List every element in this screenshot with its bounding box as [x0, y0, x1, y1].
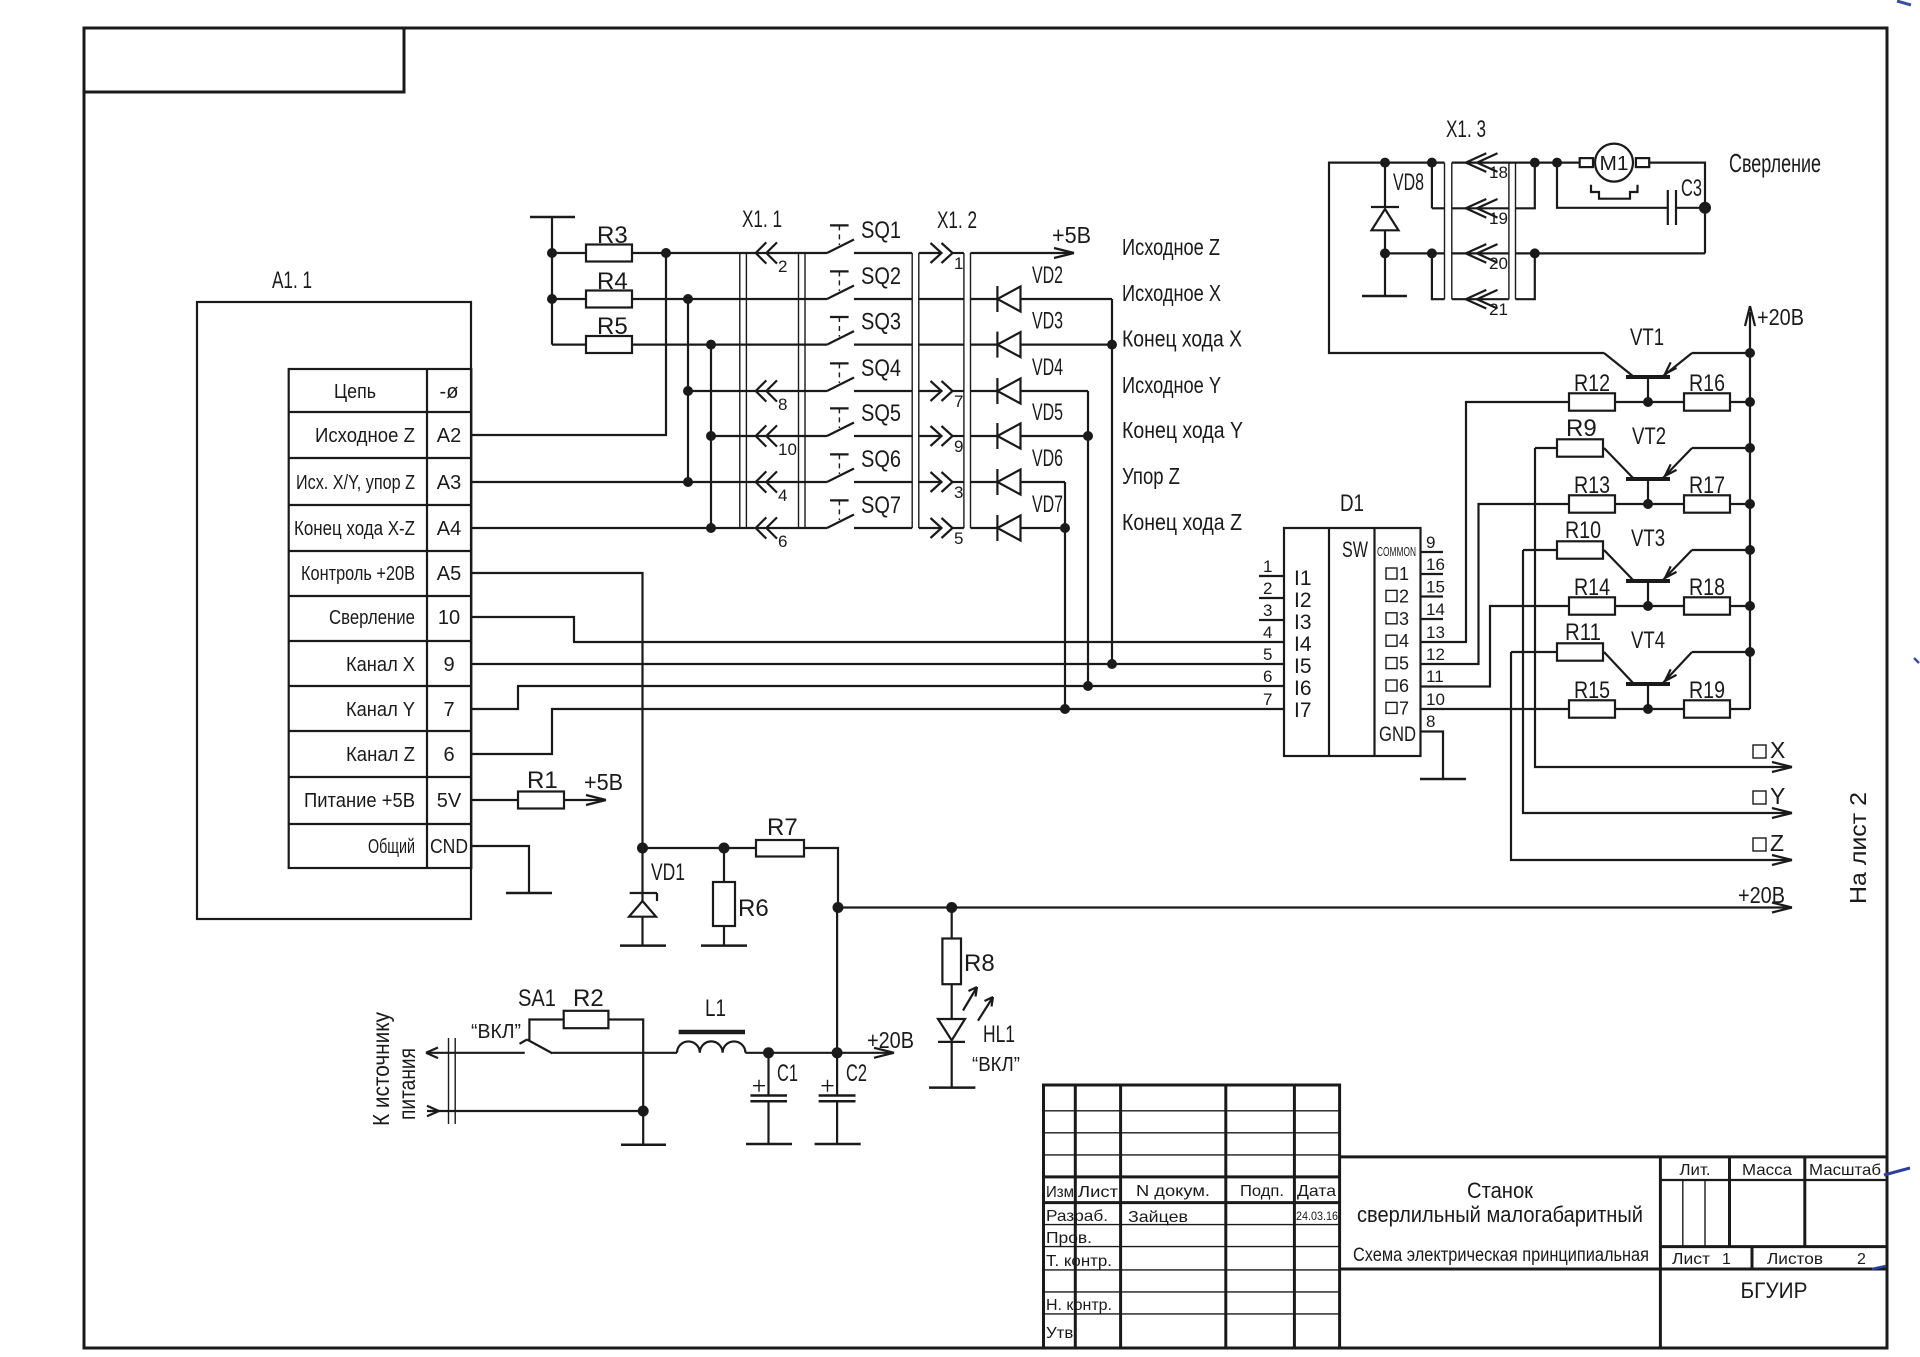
- svg-text:VD6: VD6: [1032, 445, 1063, 472]
- net label Упор Z: [1122, 463, 1180, 489]
- diode VD8: [1371, 163, 1424, 296]
- svg-text:11: 11: [1426, 667, 1444, 686]
- svg-text:Изм: Изм: [1046, 1184, 1074, 1201]
- switch SQ6: [827, 446, 912, 482]
- motor M1 brush bracket: [1591, 185, 1638, 199]
- node R3 left: [547, 248, 557, 258]
- net label Конец хода Y: [1122, 417, 1243, 443]
- svg-text:X: X: [1770, 737, 1785, 763]
- organization name БГУИР: [1741, 1278, 1808, 1303]
- wire R4 to SQ2 row: [632, 298, 827, 300]
- node R8 tap: [946, 902, 957, 913]
- table row Канал X / 9: [346, 654, 455, 676]
- label ВКЛ of HL1: [972, 1054, 1020, 1076]
- svg-text:19: 19: [1489, 209, 1508, 228]
- svg-text:6: 6: [443, 744, 454, 766]
- svg-text:Канал X: Канал X: [346, 654, 415, 676]
- svg-text:9: 9: [954, 437, 963, 456]
- wire A4 Конец хода X-Z to SQ7 row: [471, 527, 827, 529]
- output Y wire and arrow: [1523, 550, 1792, 818]
- svg-text:Пров.: Пров.: [1046, 1230, 1092, 1247]
- svg-text:18: 18: [1489, 163, 1508, 182]
- chip D1 body: [1284, 490, 1421, 756]
- +5В arrow after R1: [564, 769, 623, 805]
- ground of HL1: [929, 1086, 975, 1089]
- table row Канал Z / 6: [346, 744, 455, 766]
- Лит Масса Масштаб cells: [1660, 1157, 1886, 1247]
- svg-text:Исходное Z: Исходное Z: [315, 425, 415, 447]
- svg-text:14: 14: [1426, 600, 1445, 619]
- svg-text:“ВКЛ”: “ВКЛ”: [471, 1021, 521, 1043]
- svg-text:3: 3: [1399, 609, 1409, 629]
- svg-text:2: 2: [1857, 1251, 1866, 1268]
- svg-text:I4: I4: [1294, 633, 1312, 656]
- transistor VT1: [1604, 324, 1750, 402]
- node VD7 bus: [1060, 523, 1070, 533]
- +20V rail vertical: [1745, 304, 1804, 708]
- svg-text:R9: R9: [1566, 415, 1597, 442]
- svg-text:SQ5: SQ5: [861, 400, 901, 427]
- X1.1 pin 2 arrow: [756, 242, 788, 276]
- node VT1 base: [1643, 397, 1653, 407]
- svg-text:7: 7: [954, 392, 963, 411]
- D1 output label o7: [1386, 698, 1409, 718]
- node VT3 base: [1643, 601, 1653, 611]
- svg-text:I2: I2: [1294, 589, 1312, 612]
- resistor R10: [1523, 517, 1604, 559]
- node VT1 emitter rail: [1745, 348, 1755, 358]
- resistor R9: [1535, 415, 1604, 457]
- svg-text:5V: 5V: [437, 790, 462, 812]
- svg-text:1: 1: [1722, 1251, 1731, 1268]
- X1.3 pin 19 row wire: [1452, 207, 1509, 209]
- svg-text:Z: Z: [1770, 830, 1784, 856]
- svg-text:GND: GND: [1379, 723, 1416, 746]
- svg-text:2: 2: [1399, 586, 1409, 606]
- node bus to Канал X: [1107, 659, 1117, 669]
- ground of Общий: [506, 892, 552, 895]
- node VT2 emitter rail: [1745, 443, 1755, 453]
- svg-text:Исходное Z: Исходное Z: [1122, 234, 1220, 260]
- svg-text:R17: R17: [1689, 472, 1725, 499]
- X1.3 pin 21 left link: [1432, 253, 1445, 299]
- svg-text:SQ1: SQ1: [861, 217, 901, 244]
- svg-text:I7: I7: [1294, 699, 1312, 722]
- node VT4 base: [1643, 704, 1653, 714]
- svg-text:Исходное X: Исходное X: [1122, 280, 1221, 306]
- svg-text:A4: A4: [437, 518, 461, 540]
- svg-text:Станок: Станок: [1467, 1178, 1533, 1203]
- document title: [1353, 1178, 1649, 1266]
- +20V arrow bottom left: [867, 1027, 914, 1058]
- resistor R16: [1684, 370, 1750, 411]
- D1 pin 15 stub: [1421, 578, 1445, 597]
- svg-text:24.03.16: 24.03.16: [1296, 1209, 1338, 1223]
- connector X1.1 bars: [740, 206, 805, 528]
- D1 pin 2 stub: [1259, 579, 1284, 598]
- svg-text:5: 5: [1399, 654, 1409, 674]
- wire R5 to SQ3 row: [632, 344, 827, 346]
- svg-text:VD7: VD7: [1032, 491, 1063, 518]
- title block header texts: [1046, 1183, 1336, 1201]
- power input top wire with left arrow: [426, 1048, 525, 1059]
- D1 pin 11 wire to R14: [1421, 606, 1570, 687]
- node bus711 SQ3: [706, 340, 716, 350]
- svg-text:Н. контр.: Н. контр.: [1046, 1297, 1112, 1314]
- resistor R14: [1569, 574, 1684, 615]
- node VD8 bottom row20: [1380, 248, 1390, 258]
- svg-text:X1. 2: X1. 2: [937, 207, 977, 234]
- svg-text:A3: A3: [437, 472, 461, 494]
- svg-text:D1: D1: [1340, 490, 1364, 517]
- connector table of A1.1: [289, 369, 472, 868]
- X1.3 pin 20 row wire: [1385, 252, 1705, 254]
- resistor R19: [1684, 677, 1750, 718]
- D1 pin 8 wire to ground: [1421, 712, 1444, 779]
- node R17 rail: [1745, 499, 1755, 509]
- svg-text:VD3: VD3: [1032, 308, 1063, 335]
- net label Конец хода Z: [1122, 509, 1242, 535]
- svg-text:Масса: Масса: [1742, 1162, 1792, 1179]
- svg-text:I6: I6: [1294, 677, 1312, 700]
- D1 output label o3: [1386, 609, 1409, 629]
- label К источнику питания: [368, 1012, 420, 1126]
- transistor VT4: [1604, 627, 1750, 708]
- node pin21 left: [1427, 248, 1437, 258]
- svg-text:VT1: VT1: [1630, 324, 1664, 351]
- node bus711 SQ7: [706, 523, 716, 533]
- resistor R1: [471, 767, 564, 809]
- svg-text:Питание +5В: Питание +5В: [304, 790, 415, 812]
- capacitor C3: [1668, 175, 1705, 225]
- net label Исходное X: [1122, 280, 1221, 306]
- net label Исходное Y: [1122, 372, 1221, 398]
- svg-text:R5: R5: [597, 313, 628, 340]
- svg-text:Цепь: Цепь: [334, 381, 376, 403]
- svg-text:R19: R19: [1689, 677, 1725, 704]
- node R7 +20V line: [833, 902, 844, 913]
- D1 output label o5: [1386, 654, 1409, 674]
- svg-text:I5: I5: [1294, 655, 1312, 678]
- svg-text:сверлильный малогабаритный: сверлильный малогабаритный: [1357, 1202, 1643, 1227]
- output Z wire and arrow: [1511, 652, 1792, 865]
- svg-text:Разраб.: Разраб.: [1046, 1208, 1108, 1225]
- node C2: [832, 1047, 843, 1058]
- node bus688 SQ2: [683, 294, 693, 304]
- node brush wire top: [1552, 158, 1562, 168]
- ground of C1: [746, 1143, 792, 1146]
- svg-text:На лист 2: На лист 2: [1845, 792, 1871, 904]
- diode VD2: [971, 262, 1113, 312]
- svg-text:R10: R10: [1565, 517, 1601, 544]
- svg-text:Канал Y: Канал Y: [346, 699, 415, 721]
- label На лист 2: [1845, 792, 1871, 904]
- svg-text:2: 2: [1263, 579, 1272, 598]
- table row Питание +5В / 5V: [304, 790, 462, 812]
- svg-text:Общий: Общий: [368, 836, 415, 858]
- D1 output label o6: [1386, 676, 1409, 696]
- node VD1 R7 junction: [637, 843, 648, 854]
- svg-text:3: 3: [1263, 601, 1272, 620]
- title block signature table grid: [1044, 1085, 1340, 1348]
- D1 pin 5 number: [1263, 645, 1272, 664]
- X1.3 pin 21 row wire: [1452, 298, 1509, 300]
- resistor R7: [756, 814, 838, 908]
- output label X: [1753, 737, 1785, 763]
- svg-text:20: 20: [1489, 254, 1508, 273]
- svg-text:VD4: VD4: [1032, 354, 1063, 381]
- svg-text:7: 7: [1399, 698, 1409, 718]
- LED HL1 emission arrows: [963, 987, 993, 1021]
- capacitor C2: [819, 1053, 867, 1144]
- blue pen mark near Масштаб: [1872, 1168, 1910, 1269]
- D1 pin 1 stub: [1259, 557, 1284, 576]
- table row Канал Y / 7: [346, 699, 455, 721]
- D1 pin 3 stub: [1259, 601, 1284, 620]
- D1 pin 12 wire to R13: [1421, 504, 1570, 664]
- switch SQ1: [827, 217, 912, 253]
- svg-text:5: 5: [1263, 645, 1272, 664]
- table row Исх. X/Y, упор Z / A3: [296, 472, 461, 494]
- node VD8 top: [1380, 158, 1390, 168]
- svg-text:HL1: HL1: [983, 1021, 1015, 1048]
- svg-text:R4: R4: [597, 268, 628, 295]
- node R6 top: [719, 843, 730, 854]
- resistor R15: [1569, 677, 1684, 718]
- svg-text:Лит.: Лит.: [1680, 1162, 1711, 1179]
- X1.3 pin 19 arrow: [1466, 199, 1508, 228]
- svg-text:Схема электрическая принципиал: Схема электрическая принципиальная: [1353, 1245, 1649, 1266]
- resistor R11: [1511, 619, 1604, 661]
- svg-text:R1: R1: [527, 767, 558, 794]
- svg-text:13: 13: [1426, 623, 1445, 642]
- node R4 left: [547, 294, 557, 304]
- wire A2 Исходное Z to R3 row: [471, 253, 666, 435]
- svg-text:I1: I1: [1294, 567, 1312, 590]
- resistor R3: [586, 222, 632, 262]
- svg-text:Масштаб: Масштаб: [1809, 1162, 1881, 1179]
- diode VD7: [971, 491, 1066, 541]
- wire A3 Исх X/Y упор Z to SQ6 row: [471, 481, 827, 483]
- resistor R12: [1569, 370, 1684, 411]
- svg-text:C1: C1: [777, 1060, 798, 1087]
- svg-text:VD8: VD8: [1393, 169, 1424, 196]
- X1.3 pin 20 arrow: [1466, 244, 1508, 273]
- svg-text:7: 7: [1263, 690, 1272, 709]
- output label Z: [1753, 830, 1784, 856]
- wire M1 to right vertical: [1649, 163, 1705, 254]
- svg-text:12: 12: [1426, 645, 1445, 664]
- svg-text:Зайцев: Зайцев: [1128, 1209, 1188, 1226]
- svg-text:Исх. X/Y, упор Z: Исх. X/Y, упор Z: [296, 472, 415, 494]
- wire brush node to C3: [1557, 163, 1668, 208]
- X1.2 pin 9 arrow: [919, 426, 964, 456]
- label A1.1: [272, 267, 312, 294]
- D1 pin 4 number: [1263, 623, 1272, 642]
- node bus to Канал Y: [1083, 681, 1093, 691]
- svg-text:7: 7: [443, 699, 454, 721]
- blue scan mark top right: [1897, 1, 1919, 663]
- X1.1 pin 4 arrow: [756, 471, 788, 505]
- svg-text:Сверление: Сверление: [329, 607, 415, 629]
- svg-text:10: 10: [438, 607, 460, 629]
- power connector bars: [449, 1038, 456, 1124]
- +20V distribution line: [838, 882, 1792, 913]
- node R2 to ground junction: [638, 1106, 649, 1117]
- svg-text:5: 5: [954, 529, 963, 548]
- node VT4 emitter rail: [1745, 647, 1755, 657]
- svg-text:Т. контр.: Т. контр.: [1046, 1253, 1112, 1270]
- svg-text:Конец хода Z: Конец хода Z: [1122, 509, 1242, 535]
- node C1: [763, 1047, 774, 1058]
- svg-text:6: 6: [1399, 676, 1409, 696]
- svg-text:VD5: VD5: [1032, 399, 1063, 426]
- X1.1 pin 8 arrow: [756, 380, 788, 414]
- diode VD4: [971, 354, 1089, 404]
- svg-text:Контроль +20В: Контроль +20В: [301, 563, 415, 585]
- node C3 right: [1699, 202, 1711, 214]
- svg-text:Канал Z: Канал Z: [346, 744, 415, 766]
- svg-text:L1: L1: [705, 995, 726, 1022]
- svg-text:VT3: VT3: [1631, 525, 1665, 552]
- net label Конец хода X: [1122, 326, 1242, 352]
- wire A5 Контроль +20В down to VD1 node: [471, 573, 642, 848]
- ground of VD1: [620, 944, 666, 947]
- svg-text:4: 4: [778, 486, 787, 505]
- svg-text:R16: R16: [1689, 370, 1725, 397]
- wire VD1 node to R6 R7: [643, 847, 757, 849]
- transistor VT2: [1604, 423, 1750, 504]
- resistor R18: [1684, 574, 1750, 615]
- svg-text:R11: R11: [1565, 619, 1601, 646]
- ground of D1 pin 8: [1420, 778, 1466, 781]
- svg-text:R8: R8: [964, 950, 995, 977]
- svg-text:R3: R3: [597, 222, 628, 249]
- svg-text:Лист: Лист: [1078, 1184, 1119, 1201]
- D1 pin 9 stub COMMON: [1421, 533, 1444, 552]
- svg-text:VD1: VD1: [651, 859, 685, 886]
- svg-text:C3: C3: [1681, 175, 1702, 202]
- svg-text:N докум.: N докум.: [1136, 1183, 1210, 1200]
- svg-text:I3: I3: [1294, 611, 1312, 634]
- node VT3 emitter rail: [1745, 545, 1755, 555]
- svg-text:+5В: +5В: [1052, 222, 1091, 248]
- ground of power input: [621, 1111, 666, 1145]
- connector X1.2 bars: [912, 207, 977, 528]
- wire L1 to +20V node: [745, 1052, 872, 1054]
- svg-text:Лист: Лист: [1672, 1251, 1711, 1268]
- resistor R2: [529, 985, 643, 1111]
- bus VD6 VD7 to Канал Z: [1064, 482, 1066, 709]
- motor M1: [1580, 144, 1650, 182]
- svg-text:VT2: VT2: [1632, 423, 1666, 450]
- net label Исходное Z: [1122, 234, 1220, 260]
- svg-text:SQ6: SQ6: [861, 446, 901, 473]
- title block signature rows: [1046, 1208, 1338, 1342]
- svg-text:8: 8: [1426, 712, 1435, 731]
- switch SQ5: [827, 400, 912, 436]
- power input bottom wire with right arrow: [427, 1106, 643, 1117]
- svg-text:Конец хода Y: Конец хода Y: [1122, 417, 1243, 443]
- bus VD2 VD3 to Канал X: [1111, 299, 1113, 664]
- svg-text:X1. 1: X1. 1: [742, 206, 782, 233]
- svg-text:1: 1: [1263, 557, 1272, 576]
- top-left stamp box: [84, 28, 404, 92]
- switch SQ3: [827, 309, 912, 345]
- svg-text:3: 3: [954, 483, 963, 502]
- X1.2 pin 1 arrow: [919, 243, 964, 273]
- svg-text:M1: M1: [1600, 153, 1629, 175]
- node VT2 base: [1643, 499, 1653, 509]
- table row Сверление / 10: [329, 607, 460, 629]
- resistor R5: [586, 313, 632, 353]
- D1 pin 6 number: [1263, 667, 1272, 686]
- svg-text:8: 8: [778, 395, 787, 414]
- svg-text:-ø: -ø: [440, 381, 459, 403]
- X1.3 pin 18 arrow: [1466, 153, 1508, 182]
- label ВКЛ of SA1: [471, 1021, 521, 1043]
- node R18 rail: [1745, 601, 1755, 611]
- svg-text:SA1: SA1: [518, 985, 556, 1012]
- X1.2 pin 5 arrow: [919, 518, 964, 548]
- table row Контроль +20В / A5: [301, 563, 461, 585]
- X1.2 pin 7 arrow: [919, 381, 964, 411]
- svg-text:C2: C2: [846, 1060, 867, 1087]
- svg-text:“ВКЛ”: “ВКЛ”: [972, 1054, 1020, 1076]
- svg-text:9: 9: [443, 654, 454, 676]
- node VD5 bus: [1083, 431, 1093, 441]
- resistor R8: [942, 908, 994, 1020]
- switch SQ4: [827, 355, 912, 391]
- svg-text:Листов: Листов: [1767, 1251, 1823, 1268]
- svg-text:10: 10: [1426, 690, 1445, 709]
- svg-text:16: 16: [1426, 555, 1445, 574]
- X1.3 pin 19 left link: [1432, 163, 1445, 209]
- svg-text:SQ3: SQ3: [861, 309, 901, 336]
- LED HL1: [938, 1019, 1015, 1088]
- resistor R6: [713, 848, 769, 946]
- label Сверление: [1729, 148, 1821, 178]
- ground of C2: [815, 1143, 861, 1146]
- D1 pin 14 stub: [1421, 600, 1445, 619]
- svg-text:Дата: Дата: [1297, 1183, 1336, 1200]
- svg-text:R15: R15: [1574, 677, 1610, 704]
- svg-text:Утв.: Утв.: [1046, 1325, 1078, 1342]
- diode VD6: [971, 445, 1066, 495]
- table row Исходное Z / A2: [315, 425, 461, 447]
- node pin19 left: [1427, 158, 1437, 168]
- bus VD4 VD5 to Канал Y: [1087, 391, 1089, 686]
- svg-text:R7: R7: [767, 814, 798, 841]
- svg-text:+5В: +5В: [584, 769, 623, 795]
- table row Конец хода X-Z / A4: [294, 518, 461, 540]
- connector X1.3 bars: [1445, 116, 1516, 299]
- svg-text:SQ7: SQ7: [861, 492, 901, 519]
- X1.3 pin 21 arrow: [1466, 290, 1508, 319]
- wire Сверление to D1 pin4: [471, 617, 1284, 642]
- table header Цепь: [334, 381, 458, 403]
- svg-text:4: 4: [1263, 623, 1272, 642]
- X1.2 pin 3 arrow: [919, 472, 964, 502]
- svg-text:R12: R12: [1574, 370, 1610, 397]
- svg-text:A5: A5: [437, 563, 461, 585]
- svg-text:6: 6: [1263, 667, 1272, 686]
- table row Общий / CND: [368, 836, 468, 858]
- chassis bar above R3: [530, 216, 575, 219]
- svg-text:SQ2: SQ2: [861, 263, 901, 290]
- svg-text:VD2: VD2: [1032, 262, 1063, 289]
- wire SQ5 row from bus to switch: [711, 435, 827, 437]
